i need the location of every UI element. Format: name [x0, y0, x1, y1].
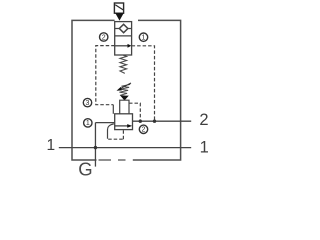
- svg-text:1: 1: [86, 120, 90, 127]
- svg-text:1: 1: [200, 138, 209, 156]
- svg-text:2: 2: [102, 34, 106, 41]
- svg-text:2: 2: [199, 111, 208, 129]
- svg-text:G: G: [78, 159, 92, 180]
- svg-text:3: 3: [86, 100, 90, 107]
- svg-text:2: 2: [142, 127, 146, 134]
- svg-text:1: 1: [46, 137, 55, 154]
- svg-text:1: 1: [142, 35, 146, 42]
